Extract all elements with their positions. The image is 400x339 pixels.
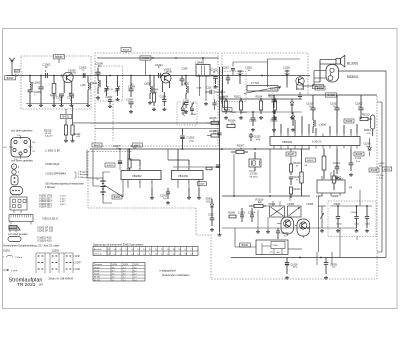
svg-text:1: 1 xyxy=(127,182,128,184)
svg-text:B4024: B4024 xyxy=(123,50,130,52)
capacitor C1004 xyxy=(160,92,167,106)
ground row module xyxy=(336,229,369,232)
svg-text:2,1: 2,1 xyxy=(120,249,122,251)
svg-text:3,3: 3,3 xyxy=(143,249,145,251)
inner dashed box tuner trimmers xyxy=(98,66,123,101)
svg-text:V1000: V1000 xyxy=(94,267,99,269)
svg-text:1,2: 1,2 xyxy=(137,249,139,251)
label BL3001 xyxy=(347,61,359,65)
capacitor C1038 xyxy=(364,138,372,156)
junction dots IF xyxy=(97,75,213,77)
ground under C2002 xyxy=(108,105,112,108)
capacitor C1023 xyxy=(249,112,257,126)
label box R4020 xyxy=(140,56,151,60)
svg-text:Änderungen vorbehalten: Änderungen vorbehalten xyxy=(162,274,190,277)
svg-text:9,1: 9,1 xyxy=(108,249,110,251)
resistor R4004 xyxy=(151,76,159,107)
capacitor C1010 big xyxy=(180,129,194,150)
wire battery link xyxy=(103,172,123,203)
svg-text:C1009: C1009 xyxy=(126,100,134,102)
capacitor C1036r xyxy=(356,237,358,241)
svg-text:1,4: 1,4 xyxy=(123,267,126,269)
zener Z1001 crystal xyxy=(249,152,261,178)
svg-text:VB1001: VB1001 xyxy=(282,140,293,144)
svg-text:0,4: 0,4 xyxy=(134,280,137,282)
wire IC top pins to rail xyxy=(274,110,357,134)
svg-text:Zeichn. Nr. 198 4048 80: Zeichn. Nr. 198 4048 80 xyxy=(49,277,74,280)
ground row mid xyxy=(251,128,295,131)
label box B4033r xyxy=(382,167,392,171)
wire antenna to input xyxy=(15,75,19,78)
capacitor C1012b xyxy=(211,69,218,88)
wire right power rail xyxy=(268,94,377,96)
wire module vertical right xyxy=(339,228,341,258)
svg-text:U(V) 1-10: U(V) 1-10 xyxy=(94,254,102,256)
label box F1026 xyxy=(222,108,232,112)
resistor R1002 body xyxy=(71,105,81,142)
diode V2000 xyxy=(205,198,214,214)
svg-text:R4014: R4014 xyxy=(364,130,372,132)
svg-text:U1006: U1006 xyxy=(331,195,339,198)
text C2005 xyxy=(181,113,188,117)
svg-text:V1002: V1002 xyxy=(94,271,99,273)
svg-text:L1002: L1002 xyxy=(90,82,98,85)
svg-text:1 FM: 1 FM xyxy=(75,256,80,258)
text right column values xyxy=(378,163,385,180)
trimmer C2007 xyxy=(104,76,113,97)
svg-text:V300: V300 xyxy=(273,245,279,247)
IF module dashed box xyxy=(95,53,218,146)
capacitor C308 xyxy=(180,68,189,87)
op-amp VB1002 xyxy=(121,166,161,188)
svg-text:B4033: B4033 xyxy=(384,169,391,171)
svg-text:U(V)E: U(V)E xyxy=(123,264,129,266)
svg-text:5,3: 5,3 xyxy=(179,249,181,251)
svg-text:Gezeichnete Schalterstellung:: Gezeichnete Schalterstellung: S2 - Aus, … xyxy=(3,244,60,248)
label box R102B xyxy=(198,182,207,186)
capacitor C1033 xyxy=(330,95,340,116)
ground under C1004n xyxy=(70,104,74,107)
svg-text:C101: C101 xyxy=(206,88,212,90)
capacitor C1008 xyxy=(128,76,136,98)
svg-text:B4023: B4023 xyxy=(63,117,70,119)
capacitor C102B xyxy=(208,213,214,231)
connector label B4032 xyxy=(5,74,17,80)
wire vertical bus xyxy=(220,67,223,232)
plug symbol small xyxy=(10,187,23,197)
wire to speaker xyxy=(314,60,336,87)
connector block symbol xyxy=(10,197,27,213)
svg-text:F1006: F1006 xyxy=(307,204,314,206)
svg-text:S1002: S1002 xyxy=(3,249,11,252)
diode V1004 xyxy=(290,99,294,114)
svg-text:R1004: R1004 xyxy=(222,97,229,99)
svg-text:2-Ausgang: 2-Ausgang xyxy=(78,173,89,176)
resistor R1004c xyxy=(256,97,263,114)
svg-text:V1002 SF 235: V1002 SF 235 xyxy=(37,229,54,232)
wire module top rail xyxy=(330,205,372,207)
svg-text:Transistor: Transistor xyxy=(94,263,103,266)
label box B4038a xyxy=(344,119,354,123)
svg-text:1.70: 1.70 xyxy=(17,135,21,137)
ground VB row xyxy=(150,188,201,204)
svg-text:0.017: 0.017 xyxy=(60,198,66,200)
title Stromlaufplan xyxy=(9,277,43,283)
svg-text:A 301 D: A 301 D xyxy=(312,140,321,144)
wire R4020 stub xyxy=(145,60,147,75)
text Y1002 list xyxy=(37,237,52,243)
svg-text:L100: L100 xyxy=(81,85,87,87)
wire module feeds xyxy=(235,228,302,249)
capacitor C1018 xyxy=(231,62,235,76)
svg-text:0,1: 0,1 xyxy=(167,254,169,256)
resistor R1006 xyxy=(207,131,220,137)
svg-text:L1001: L1001 xyxy=(34,82,41,85)
svg-text:3: 3 xyxy=(151,182,152,184)
svg-text:L1003: L1003 xyxy=(144,82,152,85)
svg-text:0,1: 0,1 xyxy=(114,254,116,256)
capacitor C1003 xyxy=(56,94,64,104)
resistor R1020 feed xyxy=(128,149,131,171)
svg-text:2,1: 2,1 xyxy=(149,249,151,251)
resistor R1004b xyxy=(222,97,229,114)
inner dashed box C1017 area xyxy=(214,72,246,102)
resistor R1010 xyxy=(249,197,266,207)
wire vertical x360 xyxy=(359,190,361,206)
voltage table small xyxy=(93,263,145,282)
svg-text:V1002: V1002 xyxy=(164,67,172,71)
small symbol bottom xyxy=(9,227,20,232)
voltage table wide xyxy=(93,247,198,256)
resistor R1011 xyxy=(332,170,343,190)
transformer Z1002 xyxy=(269,201,285,217)
label box B4031 xyxy=(54,55,65,59)
capacitor C1026c xyxy=(213,130,222,134)
text Spannung xyxy=(93,242,144,246)
svg-text:3,3: 3,3 xyxy=(114,249,116,251)
svg-text:von oben gesehen: von oben gesehen xyxy=(11,129,33,133)
svg-text:0,1: 0,1 xyxy=(112,280,115,282)
label box B4038b xyxy=(354,152,364,156)
svg-text:0,6: 0,6 xyxy=(112,267,115,269)
svg-text:0,6: 0,6 xyxy=(112,274,115,276)
output module dashed box xyxy=(328,201,376,237)
ground under C1001a xyxy=(39,104,43,107)
svg-text:B4031: B4031 xyxy=(55,55,63,59)
capacitor C1023b xyxy=(240,112,247,114)
svg-text:C1010: C1010 xyxy=(187,136,195,140)
svg-text:B4037: B4037 xyxy=(288,154,295,156)
capacitor C1009 xyxy=(126,100,134,108)
svg-text:C2002: C2002 xyxy=(106,97,113,99)
resistor R1007 xyxy=(231,145,248,154)
label box B4039 xyxy=(369,168,379,172)
main board dashed boundary right xyxy=(196,95,377,279)
svg-text:R1013: R1013 xyxy=(362,114,370,117)
ground under C1016 xyxy=(184,110,188,113)
svg-text:1p: 1p xyxy=(183,115,185,117)
svg-text:R1021: R1021 xyxy=(269,97,276,99)
transistor V300 inner xyxy=(262,242,285,255)
text part list 1 xyxy=(39,195,66,209)
capacitor C1004n xyxy=(67,93,75,104)
capacitor C1035 electrolytic xyxy=(324,258,338,275)
wire AM frame box xyxy=(233,59,300,87)
svg-text:BL3001: BL3001 xyxy=(347,61,359,65)
connector strip symbol xyxy=(9,215,33,229)
capacitor C1005 xyxy=(355,95,364,116)
svg-text:C10B: C10B xyxy=(196,88,202,90)
capacitor C1014 series xyxy=(205,88,218,95)
coil L1005 xyxy=(182,76,190,100)
switch S2 symbols xyxy=(3,255,22,272)
svg-text:0,9: 0,9 xyxy=(123,274,126,276)
switch contact grid xyxy=(36,253,73,273)
svg-text:F1005: F1005 xyxy=(288,204,295,206)
ground under C1022 xyxy=(335,176,339,179)
earphone jack KB3001 xyxy=(326,65,339,83)
svg-text:1,2: 1,2 xyxy=(137,254,139,256)
resistor R1004 xyxy=(227,120,236,128)
svg-text:L1007: L1007 xyxy=(316,195,324,198)
svg-text:2,1: 2,1 xyxy=(155,249,157,251)
svg-text:C1023: C1023 xyxy=(240,112,247,114)
coil L1006a xyxy=(313,116,327,133)
svg-text:2,1: 2,1 xyxy=(149,254,151,256)
svg-text:100µ: 100µ xyxy=(189,140,195,142)
label box B4023 xyxy=(61,109,72,119)
svg-text:1,8: 1,8 xyxy=(143,254,145,256)
capacitor C2002 xyxy=(106,97,113,104)
main board dashed boundary xyxy=(222,53,308,107)
svg-text:SF 241: SF 241 xyxy=(94,280,100,282)
ground under L1010 xyxy=(86,104,90,107)
svg-text:2 S1auf: 2 S1auf xyxy=(15,257,23,259)
svg-text:0,7: 0,7 xyxy=(185,249,187,251)
switch grid labels xyxy=(73,256,82,271)
title Zeichn Nr xyxy=(49,277,74,280)
battery clip symbol xyxy=(11,164,20,174)
capacitor C1011 series xyxy=(155,63,163,78)
svg-text:C1002: C1002 xyxy=(43,62,51,66)
svg-text:Z1602: Z1602 xyxy=(269,204,276,206)
svg-text:2: 2 xyxy=(188,182,189,184)
wire long vertical x386 xyxy=(339,71,387,258)
svg-text:0,1: 0,1 xyxy=(179,254,181,256)
text U30 line xyxy=(45,183,84,189)
svg-text:von unten gesehen: von unten gesehen xyxy=(8,233,29,236)
svg-text:7: 7 xyxy=(139,168,140,170)
svg-text:V1000: V1000 xyxy=(68,68,76,72)
capacitor C1026 xyxy=(283,68,291,86)
label box B4024 xyxy=(121,48,131,54)
text V1003 list xyxy=(37,227,54,233)
coil L1001 xyxy=(30,76,41,91)
svg-text:VB 1000: VB 1000 xyxy=(178,174,189,178)
ground under R4009 xyxy=(52,104,56,107)
svg-text:B4032: B4032 xyxy=(307,160,314,162)
svg-text:2: 2 xyxy=(139,182,140,184)
svg-text:1.713: 1.713 xyxy=(60,196,66,198)
capacitor C1015 xyxy=(306,95,316,116)
potentiometer R1018 volume xyxy=(318,206,326,232)
svg-text:V1003: V1003 xyxy=(94,274,99,276)
svg-text:SF 235: SF 235 xyxy=(94,277,100,279)
capacitor C3006 xyxy=(351,206,359,228)
resistor R1013 xyxy=(360,114,372,121)
svg-text:2 OFF: 2 OFF xyxy=(75,263,82,265)
capacitor C1037 xyxy=(289,177,301,185)
capacitor C1012 audio xyxy=(160,188,170,200)
text R1002b xyxy=(131,146,139,150)
capacitor C1024 xyxy=(248,208,256,222)
audio module dashed boundary xyxy=(88,152,196,209)
capacitor C1027b xyxy=(297,89,304,99)
inner dashed box osc trimmers xyxy=(177,102,197,125)
switch module box xyxy=(256,240,288,255)
capacitor C1006 xyxy=(95,62,103,76)
svg-text:R1021: R1021 xyxy=(234,97,241,99)
svg-text:C1006: C1006 xyxy=(95,62,103,66)
wire rail B+ y58 xyxy=(97,57,219,59)
svg-text:1,8: 1,8 xyxy=(155,254,157,256)
svg-text:0,6: 0,6 xyxy=(108,254,110,256)
transistor V3001 xyxy=(296,76,304,91)
op-amp VB1000 xyxy=(172,165,204,188)
svg-text:0,7: 0,7 xyxy=(112,271,115,273)
label KB3001 xyxy=(347,75,359,79)
wire main top rail xyxy=(7,75,310,77)
capacitor C1025a xyxy=(270,112,278,126)
svg-text:1,2: 1,2 xyxy=(161,249,163,251)
svg-text:1,2: 1,2 xyxy=(120,254,122,256)
resistor R4014 vertical oval xyxy=(364,115,375,136)
label box B4035 xyxy=(326,93,337,97)
wire speaker return xyxy=(302,85,314,87)
ground row mid2 xyxy=(224,116,294,119)
svg-text:F.Y7C3: F.Y7C3 xyxy=(251,82,260,85)
coil L1010 xyxy=(81,76,91,104)
IC pinout top view xyxy=(3,135,36,161)
wire rail y123 xyxy=(90,122,220,124)
svg-text:C70B1: C70B1 xyxy=(190,114,197,116)
svg-text:C102: C102 xyxy=(208,215,214,217)
svg-text:B4026: B4026 xyxy=(114,197,121,199)
junction dots FM xyxy=(29,75,85,77)
svg-text:2,1: 2,1 xyxy=(131,254,133,256)
output transistor pair V1 xyxy=(281,217,294,236)
capacitor C1035b xyxy=(249,133,261,141)
svg-text:1,2: 1,2 xyxy=(161,254,163,256)
svg-text:R1004: R1004 xyxy=(256,97,263,99)
transistor V1000 xyxy=(63,68,77,93)
coil L1003 xyxy=(144,76,152,100)
svg-text:C1008: C1008 xyxy=(128,86,136,88)
wire vertical feeds output xyxy=(234,149,290,202)
svg-text:C3002: C3002 xyxy=(336,224,343,226)
label box B4026 xyxy=(112,195,122,199)
svg-text:2,2: 2,2 xyxy=(134,274,137,276)
label box R4005 xyxy=(105,163,115,167)
wire long vertical x382 xyxy=(377,102,382,252)
capacitor C1029 xyxy=(276,228,289,239)
svg-text:U(V)B: U(V)B xyxy=(112,264,118,266)
svg-text:3-Diffusor: 3-Diffusor xyxy=(78,176,87,179)
svg-text:C10: C10 xyxy=(3,147,6,149)
svg-text:R1009: R1009 xyxy=(228,213,236,215)
text S1002 xyxy=(3,249,60,252)
text VT900 xyxy=(45,162,60,166)
wire right column drops xyxy=(337,116,361,133)
svg-text:R1010: R1010 xyxy=(256,197,264,201)
text Gezeichnete xyxy=(3,244,60,248)
resistor R1012b xyxy=(289,187,301,198)
svg-text:0,7: 0,7 xyxy=(131,249,133,251)
svg-text:3,3: 3,3 xyxy=(173,249,175,251)
svg-text:C3003: C3003 xyxy=(334,204,341,206)
resistor R4009 xyxy=(50,76,58,104)
resistor R1015 xyxy=(289,162,301,175)
svg-text:100µ: 100µ xyxy=(256,139,261,141)
svg-text:8: 8 xyxy=(127,168,128,170)
svg-text:1,1: 1,1 xyxy=(123,277,126,279)
svg-text:KB3001: KB3001 xyxy=(347,75,359,79)
svg-text:SP 4050: SP 4050 xyxy=(250,176,259,178)
svg-text:3 OFF: 3 OFF xyxy=(11,270,18,272)
label box B4041 xyxy=(240,243,251,247)
label C3002b xyxy=(354,224,360,226)
svg-text:1 Messer: 1 Messer xyxy=(45,186,55,189)
capacitor C1028 electrolytic xyxy=(285,258,298,275)
ground under L1004 xyxy=(204,102,208,105)
svg-text:C 3002 G 80: C 3002 G 80 xyxy=(45,149,60,153)
transformer F1005 xyxy=(288,204,314,217)
ground under C1009 xyxy=(129,110,133,113)
wire bottom drops xyxy=(317,252,332,265)
capacitor C1000 xyxy=(27,90,41,104)
svg-text:3: 3 xyxy=(188,168,189,170)
svg-text:von unten gesehen: von unten gesehen xyxy=(11,159,34,163)
capacitor C1002 series xyxy=(43,62,51,78)
transformer L1007 U306 xyxy=(316,176,352,198)
variable inductor FY7C3 xyxy=(244,82,289,94)
label V3 pins xyxy=(270,251,280,254)
svg-text:R1011: R1011 xyxy=(336,179,343,181)
svg-text:R1016: R1016 xyxy=(44,130,52,133)
dashed divider x113 xyxy=(112,101,114,141)
capacitor C1013 xyxy=(218,90,226,104)
text C1007 xyxy=(113,146,121,150)
label C3002a xyxy=(336,224,343,226)
svg-text:B4032: B4032 xyxy=(7,78,14,80)
svg-text:10k: 10k xyxy=(133,148,136,150)
svg-text:B4022: B4022 xyxy=(94,145,101,147)
wire B4031 stub xyxy=(58,59,60,63)
capacitor C1001a xyxy=(38,76,43,104)
label box B4033 xyxy=(313,84,324,88)
svg-text:U(V)C: U(V)C xyxy=(134,264,140,266)
svg-text:3 AM: 3 AM xyxy=(75,268,80,271)
label box B4037 xyxy=(286,152,296,156)
wire lower rail y228 xyxy=(222,227,357,229)
text J1002 lines xyxy=(45,172,89,179)
svg-text:2n: 2n xyxy=(284,235,286,237)
text C3002 G80 xyxy=(45,149,60,153)
trimmer C2003 xyxy=(115,76,119,97)
ground under C1035 xyxy=(324,276,328,279)
svg-text:L1006: L1006 xyxy=(319,124,327,127)
svg-text:VB1002: VB1002 xyxy=(132,174,142,178)
